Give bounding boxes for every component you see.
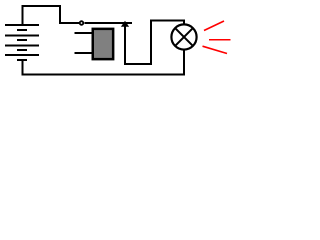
battery B1: cell plate short 2 xyxy=(17,39,27,41)
battery B1: cell plate long 1 xyxy=(5,24,39,26)
relay armature arrow head xyxy=(121,21,129,27)
wire: top horizontal run xyxy=(22,5,62,7)
wire: switch blade to contact end xyxy=(85,22,133,24)
battery B1: cell plate short 4 xyxy=(17,59,27,61)
lamp L1 X diagonal 1 xyxy=(175,28,193,46)
lamp L1 X diagonal 2 xyxy=(175,28,193,46)
wire: lamp bottom stub xyxy=(183,50,185,74)
wire: lamp top stub xyxy=(183,20,185,26)
wire: lamp top feed xyxy=(150,20,184,22)
coil lead: lower stub xyxy=(75,52,94,54)
light ray middle xyxy=(209,39,230,41)
light ray upper xyxy=(204,21,224,31)
electromagnet coil core (gray box) xyxy=(93,29,113,59)
wire: bottom horizontal return run xyxy=(22,74,186,76)
light ray lower xyxy=(203,46,228,53)
wire: battery bottom lead (vertical) xyxy=(22,61,24,76)
wire: switch feed (left of pivot) xyxy=(59,22,79,24)
battery B1: cell plate long 4 xyxy=(5,54,39,56)
battery B1: cell plate long 2 xyxy=(5,35,39,37)
battery B1: cell plate short 1 xyxy=(17,29,27,31)
coil lead: upper stub xyxy=(75,32,94,34)
wire: armature loop bottom xyxy=(124,63,152,65)
switch pivot (open circle) xyxy=(80,21,84,25)
battery B1: cell plate long 3 xyxy=(5,45,39,47)
lamp L1 (circle) xyxy=(171,24,196,49)
wire: drop from top run to switch level xyxy=(59,5,61,24)
battery B1: cell plate short 3 xyxy=(17,49,27,51)
wire: battery top lead (vertical) xyxy=(22,5,24,24)
wire: armature loop right vertical xyxy=(150,20,152,66)
relay armature arrow shaft xyxy=(124,26,126,65)
